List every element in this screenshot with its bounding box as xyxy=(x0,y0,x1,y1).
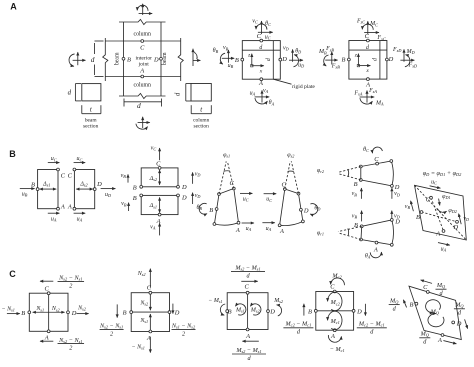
svg-text:D: D xyxy=(174,310,180,317)
figure C5 center moment loops MQ xyxy=(426,300,441,313)
figure A2 square outline xyxy=(242,41,280,80)
svg-text:C: C xyxy=(68,173,73,180)
figure A1 beam bottom line xyxy=(105,76,180,78)
svg-text:C: C xyxy=(257,33,262,40)
figure A2 node C xyxy=(260,39,263,42)
svg-text:B: B xyxy=(354,181,358,188)
svg-text:C: C xyxy=(229,180,234,187)
svg-text:FxB: FxB xyxy=(331,64,341,70)
svg-text:uB: uB xyxy=(228,63,234,69)
svg-text:B: B xyxy=(354,222,358,229)
figure C2 square outline xyxy=(131,293,169,332)
figure B5 uC arrow xyxy=(430,186,441,188)
svg-text:B: B xyxy=(308,308,312,315)
figure C5 top arrow and MQ/d xyxy=(421,280,432,283)
svg-text:D: D xyxy=(394,218,400,225)
figure C4 upper moment loop Mc2 xyxy=(328,292,342,310)
svg-text:θD: θD xyxy=(314,206,320,212)
figure A3 node D xyxy=(386,58,389,61)
figure A3 A cluster FxA FzA MA xyxy=(366,91,368,103)
figure C2 right shear arrow xyxy=(172,304,174,314)
svg-text:θA: θA xyxy=(269,100,275,106)
beam section square xyxy=(82,84,101,101)
beam section dimension d xyxy=(74,84,76,101)
figure C1 inner Ns1 arrow xyxy=(33,311,49,313)
svg-text:A: A xyxy=(139,68,144,75)
figure B1 nodes left rect xyxy=(57,168,60,171)
figure A2 node A xyxy=(260,78,263,81)
svg-text:C: C xyxy=(244,283,249,290)
beam section dimension t xyxy=(81,105,83,114)
figure A1 beam right break line xyxy=(178,38,183,81)
svg-text:A: A xyxy=(60,203,65,210)
svg-text:C: C xyxy=(423,284,428,291)
svg-text:D: D xyxy=(96,181,102,188)
figure C2 nodes xyxy=(149,291,152,294)
figure B4 vB arrow lower xyxy=(361,211,363,222)
svg-text:B: B xyxy=(9,149,16,159)
figure B5 phi D2 arc and label xyxy=(437,208,446,212)
moment symbol bottom xyxy=(142,117,144,128)
figure C1 bottom shear arrow and fraction xyxy=(40,340,53,342)
figure B4 lower fan outline xyxy=(361,220,394,245)
svg-text:uA: uA xyxy=(266,226,272,232)
figure B1 nodes right rect xyxy=(73,168,76,171)
figure C3 inner left moment loop Ms1 xyxy=(235,304,246,315)
svg-text:θB: θB xyxy=(213,48,219,54)
svg-text:x: x xyxy=(365,68,369,74)
svg-text:B: B xyxy=(228,309,232,316)
figure B3 fan1 thetaB arc xyxy=(199,203,207,214)
figure A2 axes z-x at centroid xyxy=(251,54,253,66)
figure C2 horizontal center line xyxy=(131,311,169,313)
figure B1 uC arrows xyxy=(48,162,60,164)
svg-text:section: section xyxy=(83,123,99,129)
svg-text:Ns1: Ns1 xyxy=(139,318,148,324)
svg-text:uD: uD xyxy=(105,192,111,198)
svg-text:C: C xyxy=(61,173,66,180)
figure A2 inner horizontal line xyxy=(242,49,280,51)
svg-text:vD: vD xyxy=(283,45,289,51)
svg-text:uA: uA xyxy=(441,247,447,253)
svg-text:C: C xyxy=(9,269,16,279)
svg-text:C: C xyxy=(281,182,286,189)
figure C3 arc around B xyxy=(220,304,225,315)
svg-text:B: B xyxy=(133,184,137,191)
figure B1 uB arrow xyxy=(20,188,35,190)
svg-text:column: column xyxy=(134,82,151,88)
svg-text:B: B xyxy=(235,57,239,64)
svg-text:B: B xyxy=(31,182,35,189)
figure B4 thetaC arc xyxy=(372,147,382,153)
svg-text:2: 2 xyxy=(182,330,185,337)
svg-text:C: C xyxy=(365,33,370,40)
svg-text:uC: uC xyxy=(243,196,249,202)
svg-text:B: B xyxy=(416,214,420,221)
figure B4 lower fan dashed lines to apex xyxy=(338,226,362,231)
svg-text:B: B xyxy=(123,310,127,317)
svg-text:Δs1: Δs1 xyxy=(149,203,157,209)
svg-text:Ms2 − Ms1: Ms2 − Ms1 xyxy=(234,264,260,271)
figure B4 vD arrow upper xyxy=(391,188,393,199)
svg-text:C: C xyxy=(140,45,145,52)
svg-text:uC: uC xyxy=(51,156,57,162)
figure C4 square outline xyxy=(316,292,354,331)
svg-text:FzD: FzD xyxy=(392,47,401,53)
svg-text:B: B xyxy=(342,57,346,64)
svg-text:vD: vD xyxy=(195,172,201,178)
figure B1 uA arrows xyxy=(48,212,60,214)
svg-text:D: D xyxy=(71,310,77,317)
figure C2 left shear arrow xyxy=(116,304,118,317)
svg-text:Δs2: Δs2 xyxy=(79,181,87,187)
figure B2 nodes bottom rect xyxy=(158,213,161,216)
figure A3 node C xyxy=(367,39,370,42)
figure B2 vD arrows xyxy=(192,172,194,183)
svg-text:A: A xyxy=(437,337,442,344)
svg-text:vB: vB xyxy=(121,173,127,179)
svg-text:rigid plate: rigid plate xyxy=(292,84,315,90)
svg-text:A: A xyxy=(258,80,263,87)
figure A2 inner vertical line xyxy=(272,41,274,80)
figure B5 parallelogram outline xyxy=(415,185,467,240)
svg-text:B: B xyxy=(409,301,413,308)
figure A3 square outline xyxy=(349,41,387,80)
figure C5 parallelogram outline xyxy=(409,286,461,339)
svg-text:A: A xyxy=(245,333,250,340)
svg-text:d: d xyxy=(175,92,182,96)
svg-text:Δs2: Δs2 xyxy=(149,176,157,182)
figure B5 vD arrow xyxy=(459,214,462,225)
svg-text:Ns2: Ns2 xyxy=(51,306,60,312)
svg-text:Ns2: Ns2 xyxy=(137,271,146,277)
svg-text:D: D xyxy=(181,184,187,191)
figure C4 nodes xyxy=(333,290,336,293)
figure B3 fan1 uA arrow xyxy=(242,222,254,224)
svg-text:D: D xyxy=(181,195,187,202)
svg-text:vD: vD xyxy=(463,216,469,222)
svg-text:uC: uC xyxy=(77,156,83,162)
svg-text:MC: MC xyxy=(369,21,378,27)
figure B3 fan2 outline xyxy=(280,189,303,226)
figure B4 vB arrow upper xyxy=(360,188,362,199)
figure B3 fan1 nodes xyxy=(218,193,221,196)
svg-text:vA: vA xyxy=(263,88,269,94)
figure B4 upper fan nodes xyxy=(359,165,362,168)
figure B4 upper fan dashed lines to apex xyxy=(338,167,361,173)
figure C3 vertical center line xyxy=(247,293,249,330)
figure B3 fan2 nodes xyxy=(283,188,286,191)
svg-text:C: C xyxy=(374,156,379,163)
svg-text:A: A xyxy=(10,2,17,12)
svg-text:uA: uA xyxy=(77,217,83,223)
figure C3 arc around D xyxy=(277,305,282,316)
figure B2 top rectangle xyxy=(141,168,178,187)
figure B5 dashed chord C-A xyxy=(431,198,444,231)
svg-text:− Ns1: − Ns1 xyxy=(2,306,15,312)
svg-text:A: A xyxy=(330,333,335,340)
svg-text:Δs1: Δs1 xyxy=(42,181,50,187)
svg-text:uD: uD xyxy=(298,63,304,69)
svg-text:φD2: φD2 xyxy=(448,208,456,214)
svg-text:C: C xyxy=(156,160,161,167)
dimension d (beam depth, left) xyxy=(94,43,96,54)
svg-text:FzA: FzA xyxy=(368,88,377,94)
svg-text:FxC: FxC xyxy=(376,35,386,41)
figure B3 fan2 apex angle tick xyxy=(288,170,294,173)
figure A3 D cluster FzD MD FxD xyxy=(403,49,405,61)
figure A2 C cluster vC thetaC uC xyxy=(261,21,263,34)
svg-text:MD: MD xyxy=(406,49,415,55)
figure B2 vA arrow xyxy=(159,223,161,235)
svg-text:d: d xyxy=(68,90,72,97)
figure B1 uD arrow xyxy=(101,188,116,190)
svg-text:D: D xyxy=(452,224,458,231)
svg-text:θC: θC xyxy=(363,147,369,153)
figure C3 nodes xyxy=(246,291,249,294)
figure B3 fan1 apex angle tick xyxy=(224,170,230,173)
figure A3 B cluster MB FzB FxB xyxy=(331,52,333,65)
figure A1 column right line xyxy=(160,22,162,96)
figure B3 fan1 dashed lines to apex xyxy=(219,161,226,194)
svg-text:D: D xyxy=(356,308,362,315)
svg-text:FzC: FzC xyxy=(356,19,365,25)
svg-text:d: d xyxy=(373,58,379,61)
rigid plate leader and label xyxy=(273,79,291,84)
node D xyxy=(160,57,163,60)
figure A1 column left line xyxy=(123,22,125,96)
svg-text:vC: vC xyxy=(151,146,157,152)
figure B4 vD arrow lower xyxy=(391,211,393,222)
svg-text:uB: uB xyxy=(22,192,28,198)
svg-text:B: B xyxy=(21,310,25,317)
svg-text:vB: vB xyxy=(223,45,229,51)
figure C4 B up arrow xyxy=(303,304,305,316)
svg-text:Ns1: Ns1 xyxy=(35,306,44,312)
svg-text:D: D xyxy=(269,309,275,316)
svg-text:C: C xyxy=(45,286,50,293)
svg-text:vD: vD xyxy=(394,191,400,197)
svg-text:d: d xyxy=(137,101,141,110)
figure C1 inner Ns2 arrow xyxy=(49,311,65,313)
figure A3 node A xyxy=(367,78,370,81)
figure C1 vertical center line xyxy=(48,293,50,331)
figure A2 D cluster vD thetaD uD xyxy=(292,49,294,61)
figure B4 lower fan apex tick xyxy=(347,228,350,236)
svg-text:B: B xyxy=(127,56,131,63)
moment symbol top xyxy=(142,4,144,15)
svg-text:Ns2: Ns2 xyxy=(77,306,86,312)
svg-text:FxA: FxA xyxy=(353,91,363,97)
figure B5 uA arrow xyxy=(438,243,450,246)
column section dimension d xyxy=(185,84,187,102)
moment symbol right xyxy=(192,49,194,66)
svg-text:vB: vB xyxy=(352,213,358,219)
figure B2 bottom rectangle xyxy=(141,195,178,214)
svg-text:d: d xyxy=(259,45,262,51)
moment symbol left xyxy=(77,52,79,65)
svg-text:D: D xyxy=(394,184,400,191)
svg-text:2: 2 xyxy=(69,344,72,351)
svg-text:Ms2 − Ms1: Ms2 − Ms1 xyxy=(235,347,261,354)
figure B1 right rectangle xyxy=(74,170,94,209)
svg-text:A: A xyxy=(373,246,378,253)
figure C4 lower moment loop Mc1 xyxy=(328,311,342,329)
figure B4 lower fan nodes xyxy=(360,225,363,228)
figure B2 vC arrow xyxy=(159,148,161,160)
svg-text:θC: θC xyxy=(265,21,271,27)
svg-text:D: D xyxy=(153,56,159,63)
column section dimension t xyxy=(190,105,192,114)
figure A1 column top break line xyxy=(119,19,166,24)
figure B4 thetaA arc xyxy=(370,252,381,258)
figure C1 nodes xyxy=(47,292,50,295)
figure B3 fan2 dashed lines to apex xyxy=(285,161,290,189)
node B xyxy=(122,57,125,60)
svg-text:A: A xyxy=(435,230,440,237)
figure A2 A cluster uA vA thetaA xyxy=(261,90,263,102)
figure A2 node D xyxy=(279,58,282,61)
svg-text:φD1: φD1 xyxy=(442,194,450,200)
figure C1 square outline xyxy=(29,293,68,331)
svg-text:x: x xyxy=(259,68,263,74)
figure A3 inner vertical line xyxy=(379,41,381,80)
svg-text:C: C xyxy=(147,285,152,292)
figure C5 nodes xyxy=(426,291,429,294)
figure C4 horizontal center line xyxy=(316,310,354,312)
svg-text:beam: beam xyxy=(114,52,120,65)
figure B3 fan1 uC arrow xyxy=(240,192,252,194)
figure B5 dashed chord B-D xyxy=(422,212,458,222)
figure B5 center small arrow xyxy=(439,199,440,206)
svg-text:FxD: FxD xyxy=(408,63,418,69)
figure B4 upper fan apex tick xyxy=(347,169,350,177)
svg-text:uA: uA xyxy=(51,217,57,223)
figure B3 fan2 thetaD arc xyxy=(310,204,318,215)
svg-text:D: D xyxy=(303,207,309,214)
figure B3 fan1 outline xyxy=(214,189,238,226)
svg-text:− Ns1: − Ns1 xyxy=(132,344,145,350)
svg-text:d: d xyxy=(366,45,369,51)
svg-text:vA: vA xyxy=(150,224,156,230)
svg-text:C: C xyxy=(426,196,431,203)
figure B3 fan2 uC arrow xyxy=(264,193,277,195)
svg-text:MA: MA xyxy=(375,100,384,106)
svg-text:θD: θD xyxy=(295,48,301,54)
figure C3 bottom arrow and fraction xyxy=(242,340,258,342)
svg-text:φs2: φs2 xyxy=(287,152,294,158)
svg-text:vB: vB xyxy=(405,204,411,210)
figure A3 C cluster FzC MC FxC xyxy=(367,21,369,34)
node A xyxy=(141,75,144,78)
svg-text:A: A xyxy=(67,203,72,210)
svg-text:vC: vC xyxy=(252,18,258,24)
figure B5 dashed diagonal xyxy=(415,185,467,240)
svg-text:FzB: FzB xyxy=(325,46,334,52)
svg-text:Ms1: Ms1 xyxy=(235,308,245,314)
svg-text:θA: θA xyxy=(365,253,371,259)
figure B5 nodes xyxy=(430,196,433,199)
svg-text:vB: vB xyxy=(121,201,127,207)
svg-text:vD: vD xyxy=(195,193,201,199)
svg-text:D: D xyxy=(388,56,394,63)
dimension d (column width, bottom) xyxy=(123,99,125,107)
svg-text:2: 2 xyxy=(69,282,72,289)
svg-text:Ms2: Ms2 xyxy=(250,308,260,314)
figure A3 inner horizontal line xyxy=(349,49,387,51)
figure B5 vB arrow xyxy=(411,201,414,211)
svg-text:joint: joint xyxy=(138,62,150,68)
figure A2 B cluster thetaB vB uB xyxy=(227,50,229,63)
svg-text:d: d xyxy=(91,55,95,64)
figure A2 node B xyxy=(241,58,244,61)
svg-text:D: D xyxy=(281,56,287,63)
svg-text:B: B xyxy=(209,207,213,214)
figure B2 vB arrows xyxy=(127,174,129,182)
svg-text:column: column xyxy=(134,31,151,37)
svg-text:section: section xyxy=(194,123,210,129)
svg-text:vB: vB xyxy=(352,191,358,197)
svg-text:φr1: φr1 xyxy=(317,231,324,237)
svg-text:uA: uA xyxy=(246,226,252,232)
svg-text:uC: uC xyxy=(265,35,271,41)
svg-text:uC: uC xyxy=(431,180,437,186)
svg-text:− Ms1: − Ms1 xyxy=(208,298,222,304)
figure C1 top shear arrow and fraction xyxy=(40,280,53,282)
svg-text:uC: uC xyxy=(266,197,272,203)
node C xyxy=(141,40,144,43)
column section square xyxy=(191,84,211,102)
svg-text:A: A xyxy=(279,228,284,235)
figure C4 bottom arc and minus Mc1 label xyxy=(328,335,341,342)
svg-text:C: C xyxy=(330,283,335,290)
figure B3 fan2 uA arrow xyxy=(262,222,274,224)
figure B1 left rectangle xyxy=(38,170,58,209)
svg-text:A: A xyxy=(44,335,49,342)
svg-text:Ns2: Ns2 xyxy=(139,301,148,307)
figure B2 nodes top rect xyxy=(158,167,161,170)
svg-text:φs1: φs1 xyxy=(223,152,230,158)
svg-text:θB: θB xyxy=(196,205,202,211)
figure A1 column bottom break line xyxy=(119,93,166,98)
svg-text:φr2: φr2 xyxy=(317,168,324,174)
figure A1 beam top line xyxy=(105,40,180,42)
figure A1 beam left break line xyxy=(103,38,108,81)
svg-text:A: A xyxy=(235,227,240,234)
svg-text:D: D xyxy=(456,321,462,328)
svg-text:B: B xyxy=(133,195,137,202)
svg-text:Ms2: Ms2 xyxy=(273,298,283,304)
figure B4 upper fan outline xyxy=(361,161,394,186)
figure C3 square outline xyxy=(227,293,268,330)
figure A3 node B xyxy=(348,58,351,61)
svg-text:uA: uA xyxy=(250,90,256,96)
svg-text:2: 2 xyxy=(110,330,113,337)
figure C4 D down arrow xyxy=(364,304,366,316)
svg-text:d: d xyxy=(266,58,272,61)
figure A3 axes z-x at centroid xyxy=(357,54,359,66)
figure C3 inner right moment loop Ms2 xyxy=(250,304,261,315)
